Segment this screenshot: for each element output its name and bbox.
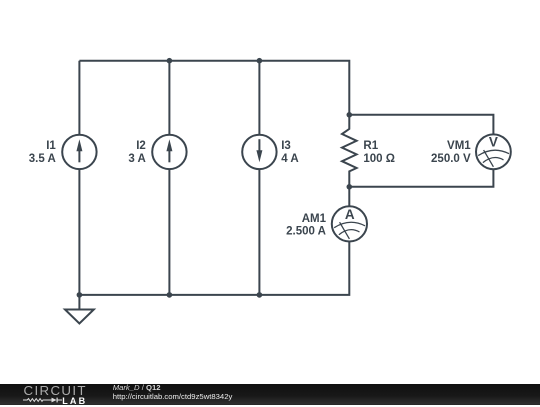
wire I3 branch top (258, 61, 260, 135)
node bottom I2 (167, 292, 173, 298)
wire bottom horizontal (79, 242, 349, 295)
wire VM1 top horizontal (349, 115, 493, 135)
svg-text:2.500 A: 2.500 A (286, 226, 326, 238)
node R1 bottom (347, 184, 353, 190)
node top I2 (167, 58, 173, 64)
node junction dots (77, 58, 353, 298)
wire top horizontal (79, 61, 349, 115)
wire I2 branch top (168, 61, 170, 135)
svg-text:250.0 V: 250.0 V (431, 153, 471, 165)
svg-text:100 Ω: 100 Ω (363, 153, 395, 165)
wire I1 branch top (78, 61, 80, 135)
node ground (77, 292, 83, 298)
svg-text:3 A: 3 A (128, 153, 145, 165)
logo waveform (23, 396, 63, 404)
wire AM1 branch top (348, 187, 350, 207)
svg-text:I3: I3 (281, 140, 291, 152)
node R1 top (347, 112, 353, 118)
svg-text:I1: I1 (46, 140, 56, 152)
current source I3 (242, 135, 276, 169)
wire I1 branch bottom (78, 169, 80, 295)
labels (29, 135, 498, 238)
svg-text:4 A: 4 A (281, 153, 298, 165)
footer bar (0, 384, 540, 405)
wire I3 branch bottom (258, 169, 260, 295)
voltmeter VM1 (476, 134, 511, 169)
svg-text:I2: I2 (136, 140, 146, 152)
node top I3 (257, 58, 263, 64)
title Mark_D / Q12 (113, 383, 161, 393)
logo LAB (62, 395, 87, 407)
resistor R1 (342, 115, 357, 187)
svg-text:VM1: VM1 (447, 140, 471, 152)
node bottom I3 (257, 292, 263, 298)
svg-text:R1: R1 (363, 140, 378, 152)
logo CIRCUIT (24, 385, 87, 397)
current source I1 (62, 135, 96, 169)
wire I2 branch bottom (168, 169, 170, 295)
wire VM1 bottom horizontal (349, 169, 493, 187)
url (113, 392, 233, 402)
svg-text:AM1: AM1 (302, 213, 327, 225)
current source I2 (152, 135, 186, 169)
svg-text:3.5 A: 3.5 A (29, 153, 56, 165)
ground (65, 295, 94, 324)
ammeter AM1 (332, 206, 367, 241)
svg-text:V: V (489, 135, 498, 150)
svg-text:A: A (345, 207, 355, 222)
